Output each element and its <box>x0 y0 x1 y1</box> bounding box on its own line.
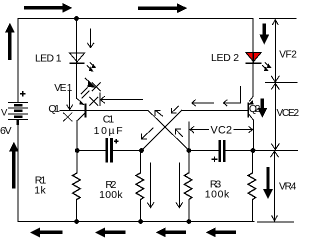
svg-text:Q1: Q1 <box>48 104 60 115</box>
battery plus sign <box>20 91 26 97</box>
wire R3 bottom <box>188 199 190 221</box>
junction node at LED1 top rail <box>74 16 79 21</box>
LED 2 diode triangle (red, lit) <box>246 53 262 64</box>
current arrow through R2 (thin down) <box>147 162 154 207</box>
junction node R3 ground <box>187 219 192 224</box>
current flow arrow at R4 (down) <box>263 167 273 199</box>
capacitor C1 plus sign <box>114 139 119 144</box>
dimension VCE2 top tick <box>265 82 298 84</box>
svg-text:100k: 100k <box>99 190 123 201</box>
cross current arrow 1 (up-left) <box>155 110 163 116</box>
resistor R1 <box>73 173 81 200</box>
transistor Q1 collector arrowhead <box>79 100 85 105</box>
blocked current arrow at LED1 (thin down arrow) <box>87 28 94 47</box>
wire LED2 cathode to Q2 collector <box>252 64 254 96</box>
svg-text:10µF: 10µF <box>94 126 123 137</box>
svg-text:C1: C1 <box>103 114 115 125</box>
wire Q1 emitter to node E1 <box>76 120 78 173</box>
current flow arrow left rail lower (up) <box>9 142 19 189</box>
current flow arrow bottom rail 4 (left) <box>206 228 236 238</box>
svg-text:VF2: VF2 <box>279 50 297 61</box>
wire node C to C2 left plate <box>189 150 219 152</box>
blocked base current arrow into Q1 (left arrow with tick) <box>100 92 143 106</box>
transistor Q2 collector arrowhead <box>248 100 253 105</box>
base current arrow pair toward Q2, arrow 1 <box>192 100 214 107</box>
transistor Q1 <box>77 98 86 120</box>
wire node C stub up (VC2 tick) <box>188 122 190 150</box>
cross current arrow 3 (down-left) <box>142 128 154 139</box>
dimension VF2 top tick <box>259 18 297 20</box>
dimension VF2 line with arrows <box>271 20 279 83</box>
wire left rail lower <box>17 125 19 222</box>
svg-text:1k: 1k <box>34 186 46 197</box>
dimension VR4 line with arrows <box>270 151 278 221</box>
current flow arrow into LED2 (down) <box>259 24 269 45</box>
wire R2 bottom <box>140 199 142 221</box>
junction node D <box>251 148 256 153</box>
cross current arrow 2 (down-left) <box>171 106 178 113</box>
resistor R4 <box>248 173 256 200</box>
current flow arrow bottom rail 3 (left) <box>156 228 186 238</box>
resistor R2 <box>136 173 144 200</box>
LED 2 light emission arrows <box>262 62 270 70</box>
dimension VCE2 line with arrows <box>271 83 279 149</box>
svg-text:V: V <box>1 108 8 119</box>
base current arrow pair toward Q2, arrow 2 with riser <box>224 86 241 106</box>
no-current X at Q1 base <box>89 97 98 106</box>
svg-text:VCE2: VCE2 <box>277 108 300 119</box>
LED 1 diode triangle <box>70 53 85 63</box>
dimension VC2 (horizontal) <box>190 126 252 133</box>
wire R4 bottom <box>252 199 254 221</box>
wire bottom rail <box>18 221 254 223</box>
VE1 probe arrow (down) <box>67 91 73 110</box>
junction node R2 ground <box>138 219 143 224</box>
wire left rail upper <box>17 19 19 102</box>
junction node R1 ground <box>74 219 79 224</box>
wire cross leg B node B to Q2 base <box>142 110 182 150</box>
wire cross leg A Q1 base to node C <box>148 110 189 150</box>
no-current double slash at Q1 <box>81 88 89 99</box>
svg-text:Q2: Q2 <box>249 104 261 115</box>
junction node B <box>139 148 144 153</box>
wire R4 top to node D <box>252 151 254 173</box>
current arrow through R3 (thin down) <box>176 162 183 207</box>
capacitor C1 <box>107 138 112 162</box>
wire LED1 cathode to Q1 collector <box>76 63 78 98</box>
no-current X at Q1 collector <box>92 82 101 91</box>
current flow arrow left rail upper (up) <box>5 23 15 60</box>
current flow arrow top rail right <box>138 3 187 13</box>
wire R2 top to node B <box>140 151 142 173</box>
wire Q1 base line <box>60 109 148 111</box>
junction node C <box>187 148 192 153</box>
svg-text:VC2: VC2 <box>211 125 233 137</box>
dimension VCE2/VR4 middle tick <box>255 149 298 151</box>
wire R1 bottom <box>76 199 78 221</box>
wire LED1 anode <box>76 19 78 54</box>
current flow arrow bottom rail 1 (left) <box>30 228 63 238</box>
wire Q2 base line <box>182 109 248 111</box>
wire C1 right plate to node B <box>113 150 142 152</box>
current flow arrow at Q2 (down) <box>258 99 268 118</box>
current flow arrow bottom rail 2 (left) <box>95 228 126 238</box>
capacitor C2 plus sign <box>212 156 218 162</box>
wire Q2 emitter to node D <box>252 120 254 150</box>
no-current X at VE1/emitter <box>63 113 72 122</box>
wire R3 top to node C <box>188 151 190 173</box>
resistor R3 <box>184 173 192 200</box>
svg-text:100k: 100k <box>205 189 230 200</box>
transistor Q2 <box>248 96 253 120</box>
cross current arrow 4 (up-left) <box>175 129 183 137</box>
svg-text:VE 1: VE 1 <box>54 83 72 94</box>
wire LED2 anode <box>252 19 254 53</box>
wire top rail <box>18 18 253 20</box>
blocked collector current arrow at Q1 (filled, down-right) <box>85 78 96 88</box>
svg-text:LED 1: LED 1 <box>35 54 62 65</box>
junction node E1 <box>75 148 80 153</box>
current flow arrow top rail left <box>24 3 72 13</box>
wire node E1 to C1 left plate <box>77 150 105 152</box>
svg-text:6V: 6V <box>0 126 12 137</box>
LED 1 light emission arrows <box>87 62 95 70</box>
capacitor C2 <box>220 140 224 162</box>
svg-text:LED 2: LED 2 <box>211 53 239 64</box>
battery V 6V <box>8 103 28 125</box>
wire C2 right plate to node D <box>225 150 254 152</box>
svg-text:VR4: VR4 <box>279 181 297 192</box>
dimension VR4 bottom tick <box>257 221 294 223</box>
